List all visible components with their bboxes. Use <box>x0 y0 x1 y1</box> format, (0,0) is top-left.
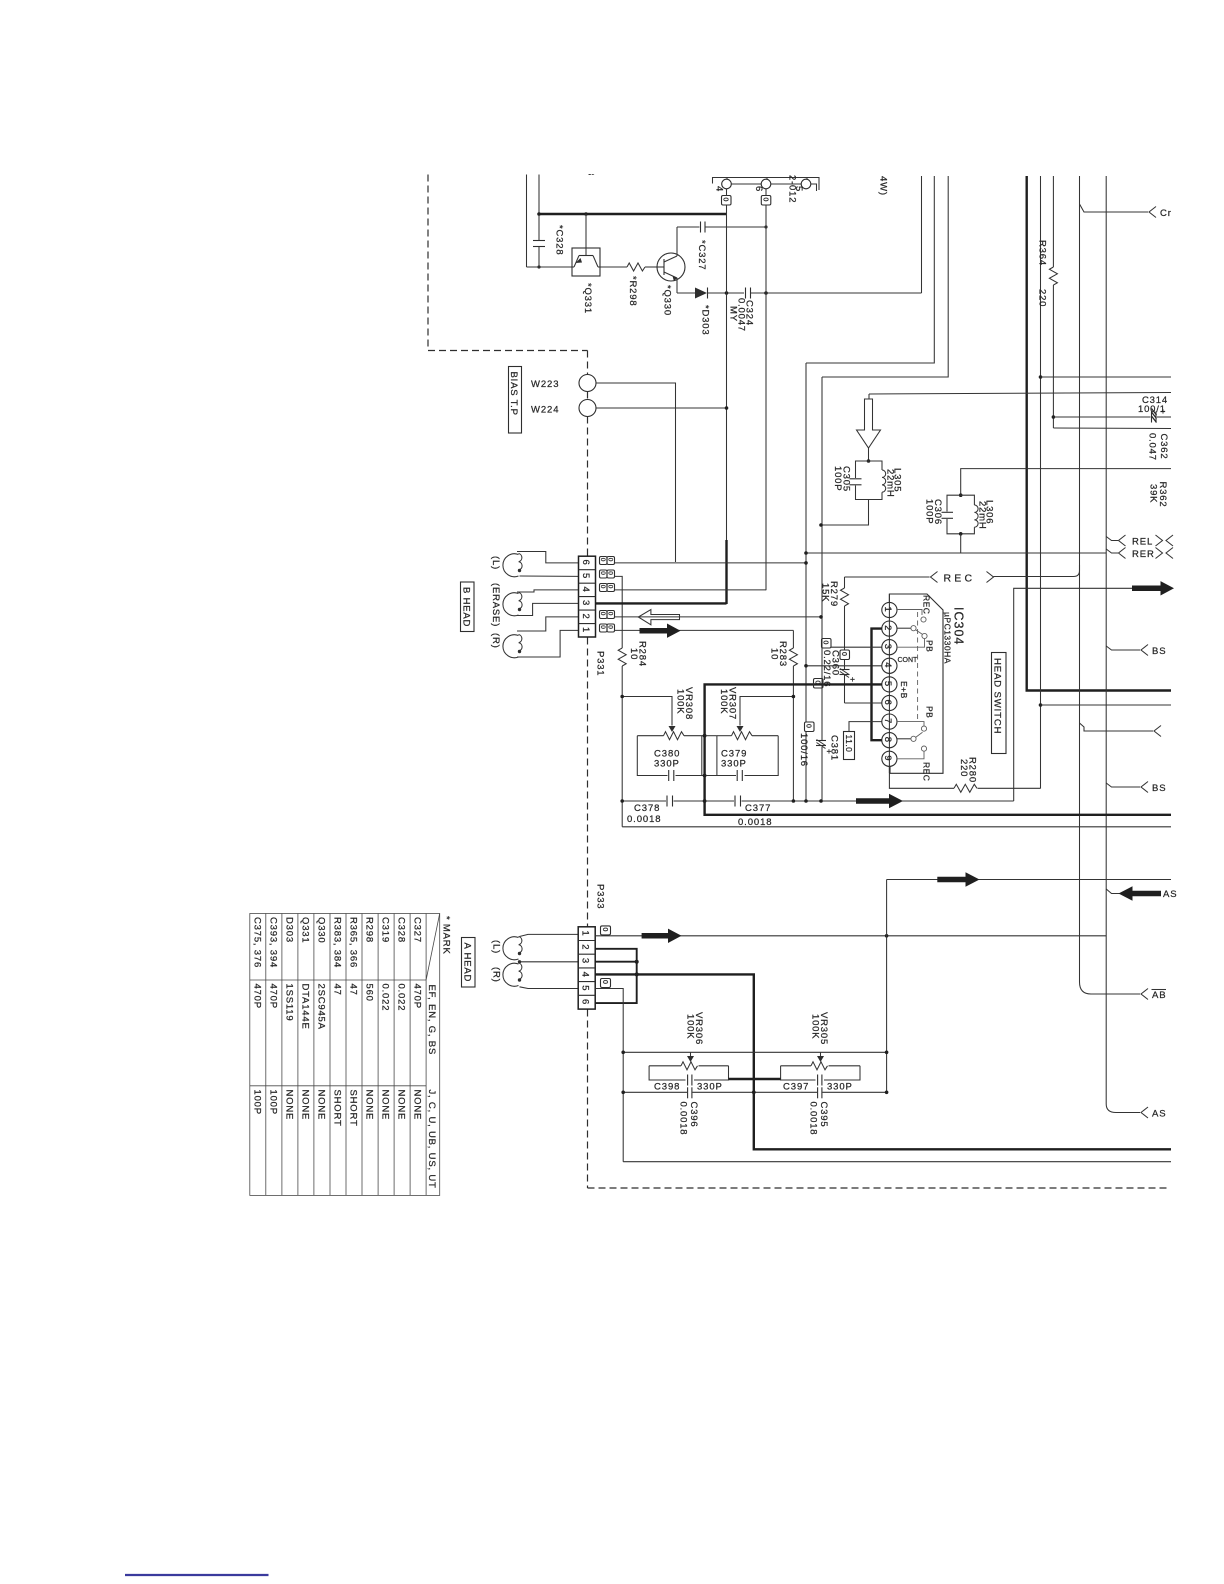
wire W223 to pin6 row <box>596 383 676 562</box>
svg-text:47: 47 <box>332 984 343 996</box>
svg-text:PB: PB <box>925 706 935 718</box>
svg-text:2: 2 <box>882 625 893 631</box>
wire pin6 row from C360 chain <box>845 702 882 704</box>
svg-text:C397: C397 <box>783 1082 809 1093</box>
capacitor C380 330P in loop <box>637 736 667 776</box>
svg-text:6: 6 <box>580 560 591 566</box>
capacitor C314 100/16 (polarized) <box>1151 412 1153 423</box>
wire hook x934 to x806 <box>806 176 934 363</box>
wire bottom rail y267 <box>527 266 573 268</box>
pin 5 <box>882 677 897 692</box>
svg-text:0: 0 <box>607 558 614 562</box>
wire Q330 emitter to D303 row <box>676 278 678 293</box>
svg-text:*R298: *R298 <box>627 276 638 306</box>
svg-text:0.0018: 0.0018 <box>677 1102 688 1136</box>
wire P331 pin6 row to x806 <box>615 562 807 564</box>
pin 4 <box>882 658 897 673</box>
wire pin6 vertical x766 <box>765 189 767 196</box>
node unnamed branch from x1079.5 y727 <box>1080 723 1154 731</box>
svg-text:P333: P333 <box>595 884 606 909</box>
svg-text:RER: RER <box>1132 549 1155 560</box>
svg-text:C398: C398 <box>654 1082 680 1093</box>
node AS branch bottom from x1106 <box>1106 1104 1140 1113</box>
svg-text:C378: C378 <box>634 803 660 814</box>
capacitor C378 0.0018 <box>666 796 668 807</box>
wire row y705 to page edge <box>1041 704 1172 706</box>
svg-text:4: 4 <box>714 186 725 192</box>
capacitor C324 0.0047 MY <box>745 288 747 299</box>
svg-text:3: 3 <box>882 644 893 650</box>
dashed border vertical x587.5 upper <box>587 351 589 375</box>
jumper 0 box on thick pin5 path <box>814 679 824 689</box>
svg-text:22mH: 22mH <box>977 501 988 530</box>
wire bus x1053.4 with R364 <box>1052 176 1054 267</box>
svg-text:D303: D303 <box>284 917 295 943</box>
wire headL bottom to pin5 <box>520 575 579 577</box>
wire hook x948 to x822 <box>822 176 948 377</box>
pin 1 <box>882 602 897 617</box>
wire headR bottom to pin1 <box>517 630 579 657</box>
wire headE bottom to pin3 <box>517 603 579 615</box>
dashed border horizontal y350 <box>428 350 588 352</box>
top connector housing bracket <box>713 178 820 191</box>
svg-text:15K: 15K <box>820 583 831 602</box>
wire top-left vertical rail <box>526 175 528 268</box>
svg-text:330P: 330P <box>654 759 680 770</box>
wire pin7 stub to 11.0 box <box>849 722 882 732</box>
svg-text:(L): (L) <box>490 556 501 570</box>
svg-text:C362: C362 <box>1158 434 1169 460</box>
decorative link line bottom-left (blue) <box>125 1574 269 1576</box>
pin 8 <box>882 733 897 748</box>
svg-text:0: 0 <box>599 612 606 616</box>
wire headE top to pin4 <box>517 590 579 592</box>
wire row C314 y417 <box>1053 416 1150 418</box>
label box A HEAD <box>462 938 476 988</box>
svg-text:0: 0 <box>822 641 829 645</box>
svg-text:5: 5 <box>580 573 591 579</box>
arrow row y879.5 with right-filled arrow <box>887 879 1171 881</box>
svg-text:E+B: E+B <box>899 681 909 699</box>
svg-text:4W): 4W) <box>878 176 889 196</box>
svg-text:0: 0 <box>599 558 606 562</box>
wire vertical x806 <box>805 363 807 722</box>
wire thick bus x1026.7 with corner to right <box>1027 176 1171 691</box>
capacitor C379 330P in loop <box>716 736 718 776</box>
wire row y1161.7 <box>623 1161 1171 1163</box>
arrow right-filled on row y801 <box>856 794 903 808</box>
svg-text:BIAS T.P: BIAS T.P <box>508 372 519 416</box>
arrow right-filled on pin1 row <box>615 629 794 631</box>
svg-text:B HEAD: B HEAD <box>461 587 472 627</box>
wire row y826.8 <box>622 826 1171 828</box>
svg-text:470P: 470P <box>268 984 279 1009</box>
svg-text:µPC1330HA: µPC1330HA <box>943 612 953 664</box>
arrow hollow left on pin2 row <box>615 616 822 618</box>
head coil L (B) <box>503 554 519 577</box>
svg-text:NONE: NONE <box>364 1090 375 1121</box>
svg-text:0: 0 <box>601 980 608 984</box>
wire thick path IC pin5 left-down-right <box>705 684 1171 814</box>
svg-text:0: 0 <box>814 681 821 685</box>
svg-text:4: 4 <box>580 972 591 978</box>
top connector pin 6 <box>731 183 761 185</box>
label box B HEAD <box>461 582 475 632</box>
capacitor C397 330P in loop <box>781 1066 816 1080</box>
pin 2 <box>882 621 897 636</box>
wire pin2 to pin6 bracket <box>595 949 637 1003</box>
wire W224 to bus x726.5 <box>596 407 727 409</box>
svg-text:C377: C377 <box>745 803 771 814</box>
capacitor C360 0.22/16 polarized <box>844 660 846 670</box>
resistor R298 <box>600 266 627 268</box>
arrow right-filled on record path row y588.3 <box>1106 587 1132 589</box>
voltage box 11.0 <box>844 732 855 760</box>
op-amp U IC304 outline <box>889 594 943 773</box>
wire headR bottom to pin5 <box>520 987 579 989</box>
wire headL top to pin1 <box>520 934 579 936</box>
svg-text:0: 0 <box>607 571 614 575</box>
svg-text:NONE: NONE <box>284 1090 295 1121</box>
pin 7 <box>882 714 897 729</box>
wire row y801 with C378 C377 <box>622 800 666 802</box>
capacitor C327 <box>700 222 702 233</box>
wire thick lower part to P331 pin3 <box>725 540 727 604</box>
wire C328 branch vertical <box>538 175 540 241</box>
svg-text:R364: R364 <box>1037 240 1048 266</box>
svg-text:0: 0 <box>601 928 608 932</box>
svg-text:HEAD SWITCH: HEAD SWITCH <box>992 658 1003 734</box>
svg-text:6: 6 <box>580 999 591 1005</box>
resistor R284 10 <box>618 648 626 666</box>
svg-text:REC: REC <box>922 595 932 614</box>
svg-text:1: 1 <box>882 607 893 613</box>
node Cr branch <box>1080 204 1149 212</box>
wire Q330 collector to C327 row <box>676 227 678 256</box>
jumper 0 box on R279 chain <box>840 650 850 660</box>
svg-text:BS: BS <box>1152 783 1166 794</box>
svg-text:DTA144E: DTA144E <box>300 984 311 1030</box>
svg-text:2-012: 2-012 <box>787 175 798 203</box>
svg-text:3: 3 <box>580 958 591 964</box>
resistor R280 220 <box>954 784 977 792</box>
capacitor C377 0.0018 <box>734 796 736 807</box>
svg-text:10: 10 <box>769 648 780 660</box>
svg-text:C319: C319 <box>380 917 391 943</box>
svg-text:C327: C327 <box>412 917 423 943</box>
svg-text:IC304: IC304 <box>952 607 966 645</box>
potentiometer VR305 100K <box>820 1052 822 1056</box>
wire row y428 from x1053 corner <box>1053 427 1171 430</box>
svg-text:7: 7 <box>882 718 893 724</box>
wire pin3 row with 0 jumper <box>822 639 832 649</box>
node BS branch upper <box>1106 646 1140 650</box>
capacitor C396 0.0018 on lower row <box>687 1087 689 1098</box>
svg-text:39K: 39K <box>1148 484 1159 503</box>
svg-text:1SS119: 1SS119 <box>284 984 295 1022</box>
node RER branch <box>1106 549 1118 553</box>
svg-text:220: 220 <box>1037 289 1048 307</box>
top connector pin 5 with 2-012 <box>771 183 801 185</box>
wire bus x1040 <box>1040 176 1042 789</box>
svg-text:100P: 100P <box>252 1090 263 1115</box>
wire pin4 vertical bus x726.5 <box>726 189 728 196</box>
svg-text:R383, 384: R383, 384 <box>332 917 343 968</box>
svg-text:+: + <box>850 674 855 684</box>
svg-text:SHORT: SHORT <box>332 1090 343 1127</box>
svg-text:100K: 100K <box>810 1014 821 1039</box>
wire hook x921 to D303/C324 row <box>921 176 923 293</box>
svg-text:0.022: 0.022 <box>380 984 391 1012</box>
svg-text:330P: 330P <box>721 759 747 770</box>
svg-text:0.0018: 0.0018 <box>807 1102 818 1136</box>
svg-text:AS: AS <box>1152 1109 1166 1120</box>
svg-text:8: 8 <box>882 737 893 743</box>
arrow hollow down into L305 <box>869 393 1171 395</box>
head coil R (A) <box>503 963 519 986</box>
wire P333 pin1 row with arrow to bus <box>595 935 1106 937</box>
wire row y377 to page edge <box>1041 376 1172 378</box>
jumper 0 box above C381 <box>805 722 815 732</box>
dashed border left vertical <box>427 175 429 351</box>
potentiometer VR308 100K <box>637 735 663 737</box>
svg-text:100K: 100K <box>675 689 686 714</box>
svg-text:NONE: NONE <box>300 1090 311 1121</box>
capacitor C328 <box>533 240 545 242</box>
transistor Q331 <box>572 248 600 276</box>
head coil L (A) <box>503 937 519 960</box>
svg-text:330P: 330P <box>827 1082 853 1093</box>
svg-text:AS: AS <box>1163 889 1177 900</box>
svg-text:2: 2 <box>580 614 591 620</box>
diode D303 <box>695 288 707 299</box>
svg-text:(R): (R) <box>490 633 501 649</box>
svg-text:SHORT: SHORT <box>348 1090 359 1127</box>
capacitor C395 0.0018 on lower row <box>817 1087 819 1098</box>
svg-text:EF, EN, G, BS: EF, EN, G, BS <box>426 985 437 1056</box>
wire bus x1079.5 <box>1079 176 1081 982</box>
inductor L305 22mH with capacitor C305 100P <box>867 459 871 463</box>
svg-text:100P: 100P <box>268 1090 279 1115</box>
svg-text:0.0018: 0.0018 <box>627 814 661 825</box>
svg-text:22mH: 22mH <box>885 469 896 498</box>
svg-text:6: 6 <box>882 700 893 706</box>
svg-text:R298: R298 <box>364 917 375 943</box>
svg-text:NONE: NONE <box>396 1090 407 1121</box>
svg-text:0: 0 <box>805 724 812 728</box>
jumper 0 box beside P333 pin1 <box>601 926 611 935</box>
label box HEAD SWITCH <box>992 653 1007 754</box>
arrow right-filled on pin1 row <box>642 929 682 943</box>
svg-text:470P: 470P <box>412 984 423 1009</box>
pin 9 <box>882 751 897 766</box>
wire VR307 wiper feed <box>740 697 793 726</box>
node REL branch <box>1106 537 1118 541</box>
wire L305 bottom to x821 <box>821 500 869 526</box>
wire pin9 down to R280 row <box>889 767 954 789</box>
svg-text:C393, 394: C393, 394 <box>268 917 279 968</box>
wire VR308 wiper feed <box>622 697 672 726</box>
potentiometer VR307 100K <box>717 735 732 737</box>
svg-text:*C328: *C328 <box>554 225 565 255</box>
svg-text:AB: AB <box>1152 990 1166 1001</box>
wire P331 pin5 row down to R284 <box>615 576 623 648</box>
svg-text:(ERASE): (ERASE) <box>490 583 501 627</box>
svg-text:470P: 470P <box>252 984 263 1009</box>
connector P331 body <box>579 556 596 637</box>
head coil ERASE (B) <box>503 593 519 616</box>
wire thick link between A loops <box>729 1078 781 1080</box>
head coil R (B) <box>503 635 519 658</box>
svg-text:C381: C381 <box>829 735 840 761</box>
arrow left-filled AS branch <box>1106 889 1161 894</box>
svg-text:0: 0 <box>599 571 606 575</box>
capacitor C398 330P in loop <box>649 1066 685 1080</box>
svg-text:C375, 376: C375, 376 <box>252 917 263 968</box>
svg-text:Q330: Q330 <box>316 917 327 943</box>
wire headL top to pin6 <box>517 552 579 563</box>
switch dashed link <box>917 612 919 722</box>
pin 6 <box>882 695 897 710</box>
SECTION: variant parts table <box>250 914 440 1196</box>
svg-text:0: 0 <box>607 612 614 616</box>
svg-text:0.047: 0.047 <box>1147 433 1158 461</box>
svg-text:100K: 100K <box>718 689 729 714</box>
svg-text:0: 0 <box>599 585 606 589</box>
pin 3 <box>882 640 897 655</box>
svg-text:C396: C396 <box>688 1102 699 1128</box>
dashed border bottom y1188 <box>588 1187 1169 1189</box>
wire vertical x1013.7 record path up to arrow row <box>1014 588 1106 801</box>
svg-text:330P: 330P <box>697 1082 723 1093</box>
svg-text:Q331: Q331 <box>300 917 311 943</box>
pin4 CONT <box>806 665 882 667</box>
svg-text:J, C, U, UB, US, UT: J, C, U, UB, US, UT <box>426 1090 437 1189</box>
wire rail y1052.3 <box>623 1051 886 1053</box>
svg-text:220: 220 <box>958 759 969 777</box>
svg-text:PB: PB <box>925 640 935 652</box>
svg-text:10: 10 <box>628 648 639 660</box>
svg-text:Cr: Cr <box>1160 208 1172 219</box>
svg-text:A HEAD: A HEAD <box>462 943 473 983</box>
wire L306 bottom row y553 to bus <box>959 532 963 536</box>
svg-text:C395: C395 <box>818 1102 829 1128</box>
svg-text:REC: REC <box>944 573 976 585</box>
wire row y1092.3 <box>623 1091 687 1093</box>
resistor R283 10 <box>792 630 794 648</box>
jumper 0 box beside P333 pin5 <box>601 979 611 988</box>
svg-text:0: 0 <box>722 198 729 202</box>
svg-text:P331: P331 <box>595 651 606 676</box>
svg-text:C328: C328 <box>396 917 407 943</box>
svg-text:NONE: NONE <box>380 1090 391 1121</box>
svg-text:(R): (R) <box>491 967 502 983</box>
wire vertical x822 <box>821 377 823 740</box>
connector P333 body <box>578 927 595 1009</box>
svg-text:100P: 100P <box>832 466 843 491</box>
svg-text:4: 4 <box>580 587 591 593</box>
svg-text:*Q330: *Q330 <box>662 285 673 316</box>
resistor R279 15K <box>844 577 846 588</box>
svg-text:0: 0 <box>761 198 768 202</box>
potentiometer VR306 100K <box>690 1052 692 1056</box>
inductor L306 22mH with capacitor C306 100P <box>961 469 1171 496</box>
svg-text:*C327: *C327 <box>696 240 707 270</box>
svg-text:W224: W224 <box>531 405 559 416</box>
svg-text:11.0: 11.0 <box>844 735 854 753</box>
svg-text:1: 1 <box>580 931 591 937</box>
resistor R364 220 <box>1049 267 1057 285</box>
transistor Q330 <box>657 253 685 281</box>
wire x886.6 vertical from pin1 row up to arrow row <box>886 880 888 1093</box>
wire heads middle to pin3 <box>520 961 579 963</box>
wire thick bracket pins 2-8 <box>872 629 882 741</box>
node BS branch lower <box>1106 783 1140 787</box>
label box BIAS T.P <box>509 367 522 434</box>
top connector pin 4 <box>722 179 732 189</box>
svg-text:* MARK: * MARK <box>441 916 452 955</box>
svg-text:2SC945A: 2SC945A <box>316 984 327 1030</box>
svg-text:MY: MY <box>728 306 739 322</box>
svg-text:REL: REL <box>1132 537 1153 548</box>
svg-text:REC: REC <box>922 762 932 781</box>
wire thick pin3 row <box>595 961 637 963</box>
wire bus x1106 <box>1105 176 1107 1104</box>
svg-text:47: 47 <box>348 984 359 996</box>
svg-text:*D303: *D303 <box>700 305 711 335</box>
svg-text:5: 5 <box>580 985 591 991</box>
svg-text:R365, 366: R365, 366 <box>348 917 359 968</box>
svg-text:9: 9 <box>882 755 893 761</box>
svg-text:2: 2 <box>580 944 591 950</box>
capacitor C381 100/16 polarized <box>816 740 826 742</box>
svg-text:100P: 100P <box>924 499 935 524</box>
svg-text:(L): (L) <box>491 940 502 954</box>
wire pin5 row down x623.2 <box>595 989 623 1162</box>
wire headR top to pin2 <box>517 617 579 631</box>
svg-text:0: 0 <box>599 625 606 629</box>
svg-text:100/16: 100/16 <box>798 733 809 767</box>
wire thick P331 pin3 row to x726.5 <box>596 602 727 604</box>
node REC row <box>845 576 930 578</box>
svg-text:3: 3 <box>580 600 591 606</box>
wire thick top bus y214 <box>538 213 727 215</box>
svg-text:NONE: NONE <box>412 1090 423 1121</box>
svg-text:BS: BS <box>1152 646 1166 657</box>
svg-text:W223: W223 <box>531 379 559 390</box>
jumper 0 boxes beside P331 pins <box>599 557 615 633</box>
jumper 0 box under pin 6 <box>761 196 771 206</box>
svg-text:0: 0 <box>607 625 614 629</box>
jumper 0 box under pin 4 <box>722 196 732 206</box>
svg-text:560: 560 <box>364 984 375 1002</box>
svg-text:100K: 100K <box>685 1014 696 1039</box>
svg-text:6: 6 <box>753 186 764 192</box>
node AB-bar branch from x1079.5 <box>1080 982 1141 994</box>
svg-text:100/1: 100/1 <box>1138 404 1166 415</box>
wire thick pin4 row right and down <box>595 974 1171 1149</box>
svg-text:0: 0 <box>607 585 614 589</box>
svg-text:1: 1 <box>580 627 591 633</box>
svg-text:5: 5 <box>882 681 893 687</box>
svg-text:0.022: 0.022 <box>396 984 407 1012</box>
svg-text:4: 4 <box>882 662 893 668</box>
svg-text:NONE: NONE <box>316 1090 327 1121</box>
wire P331 pin4 row to x766 <box>615 589 767 591</box>
svg-text:*Q331: *Q331 <box>582 283 593 314</box>
svg-text:CONT: CONT <box>898 657 919 664</box>
